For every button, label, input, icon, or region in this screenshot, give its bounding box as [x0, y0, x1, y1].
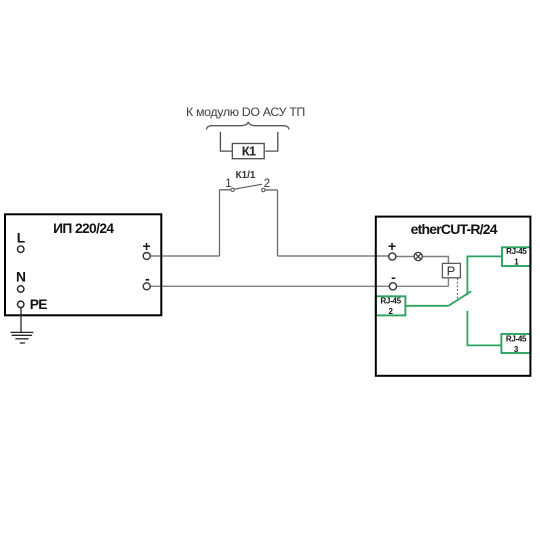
svg-text:RJ-45: RJ-45 — [506, 334, 527, 343]
svg-text:Р: Р — [447, 264, 456, 279]
svg-text:RJ-45: RJ-45 — [506, 247, 527, 256]
svg-text:N: N — [16, 270, 26, 285]
svg-text:RJ-45: RJ-45 — [380, 297, 401, 306]
svg-text:2: 2 — [264, 178, 270, 190]
svg-text:etherCUT-R/24: etherCUT-R/24 — [411, 221, 498, 237]
svg-text:К1: К1 — [242, 144, 256, 159]
svg-text:+: + — [388, 239, 396, 254]
svg-text:1: 1 — [225, 178, 231, 190]
svg-text:L: L — [17, 230, 25, 245]
svg-text:PE: PE — [30, 297, 48, 312]
svg-text:К модулю DO АСУ ТП: К модулю DO АСУ ТП — [186, 105, 305, 119]
svg-text:К1/1: К1/1 — [235, 170, 255, 181]
svg-text:ИП 220/24: ИП 220/24 — [53, 221, 114, 236]
